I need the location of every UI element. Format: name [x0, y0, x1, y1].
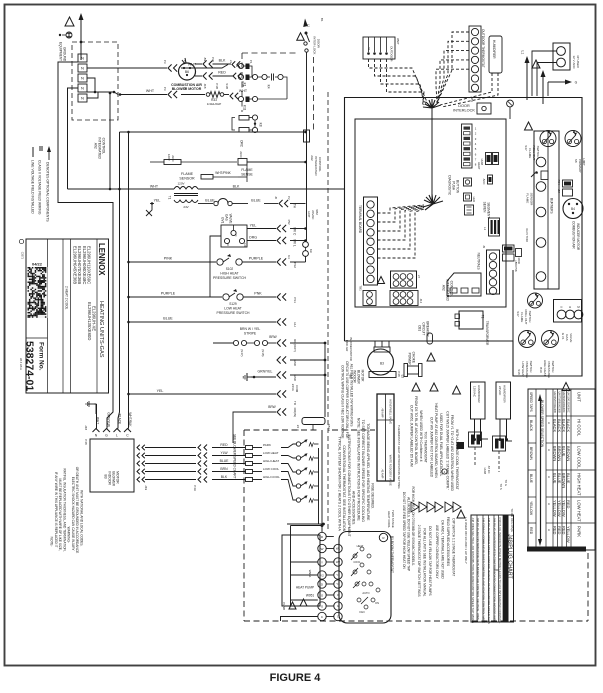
svg-text:FROM Y1 TO Y2 AT A92 CONTROL W: FROM Y1 TO Y2 AT A92 CONTROL WHEN USED	[450, 415, 454, 492]
svg-text:DO NOT USE RED SPEED TAP FOR H: DO NOT USE RED SPEED TAP FOR HIGH HEAT O…	[402, 492, 406, 570]
svg-text:YELLOW: YELLOW	[552, 500, 557, 517]
svg-text:FLAME: FLAME	[520, 312, 524, 322]
svg-text:BRN W / YEL: BRN W / YEL	[240, 327, 261, 331]
svg-text:BLACK: BLACK	[557, 419, 562, 432]
svg-text:J48 PLUG BLOWER SPEED CONTROL: J48 PLUG BLOWER SPEED CONTROL BOARD UNUS…	[487, 518, 491, 624]
svg-text:HEAT PUMP: HEAT PUMP	[296, 586, 314, 590]
svg-text:WARNING-: WARNING-	[67, 527, 71, 543]
svg-text:ELECTRIC SHOCK HAZARD CAN CAUS: ELECTRIC SHOCK HAZARD CAN CAUSE INJURY	[71, 477, 75, 552]
svg-text:WHT/PINK: WHT/PINK	[215, 171, 231, 175]
svg-text:BLUE: BLUE	[557, 473, 562, 484]
svg-text:RO(IN): RO(IN)	[293, 408, 297, 418]
svg-text:P2: P2	[287, 196, 291, 200]
svg-text:J1B: J1B	[203, 84, 207, 89]
svg-text:BLUE: BLUE	[163, 317, 173, 321]
svg-text:INDOOR: INDOOR	[108, 471, 112, 485]
svg-text:YEL: YEL	[250, 224, 257, 228]
svg-text:UNIT: UNIT	[396, 38, 400, 45]
svg-text:HEAT COOL: HEAT COOL	[387, 511, 391, 528]
svg-text:HUMIDIFIER: HUMIDIFIER	[492, 40, 496, 59]
svg-text:BLK: BLK	[233, 185, 240, 189]
svg-text:S18: S18	[517, 369, 521, 375]
svg-text:P3: P3	[163, 87, 167, 91]
svg-text:FIGURE 4: FIGURE 4	[270, 672, 322, 684]
svg-text:DIP SWITCH 1 2 STAGE THERMOSTA: DIP SWITCH 1 2 STAGE THERMOSTAT	[452, 518, 456, 576]
svg-text:RED: RED	[220, 443, 228, 447]
svg-text:/J58 P58: /J58 P58	[514, 260, 518, 271]
svg-text:RED: RED	[566, 500, 571, 509]
svg-text:BLACK: BLACK	[561, 419, 566, 432]
svg-text:BLACK: BLACK	[552, 419, 557, 432]
svg-text:A92: A92	[310, 155, 314, 161]
svg-text:12 V ACC: 12 V ACC	[572, 56, 576, 70]
svg-text:BLUE: BLUE	[251, 199, 261, 203]
svg-text:24VAC: 24VAC	[311, 210, 315, 220]
svg-text:USE COPPER CONDUCTORS ONLY: USE COPPER CONDUCTORS ONLY	[435, 525, 439, 580]
svg-text:DO NOT USE YELLOW TAP FOR HEAT: DO NOT USE YELLOW TAP FOR HEAT PUMPS	[428, 526, 432, 596]
svg-text:IG N TOR: IG N TOR	[525, 229, 529, 243]
svg-text:PUSH: PUSH	[452, 181, 456, 191]
svg-text:INTEGRATED: INTEGRATED	[98, 137, 102, 159]
svg-text:HLI: HLI	[293, 322, 297, 327]
svg-text:BRW: BRW	[268, 405, 275, 409]
svg-text:CONTROL: CONTROL	[318, 157, 322, 172]
svg-text:HI: HI	[226, 243, 230, 246]
svg-text:FIELD SUPPLIED ACCESSORIES: FIELD SUPPLIED ACCESSORIES	[446, 517, 450, 566]
svg-text:C2071: C2071	[20, 252, 23, 260]
svg-text:FOR HIGH HEAT ON 070X36B OR 09: FOR HIGH HEAT ON 070X36B OR 090X48C MODE…	[411, 486, 415, 566]
svg-text:HIGH HEAT: HIGH HEAT	[543, 360, 547, 376]
svg-text:GROUND: GROUND	[63, 47, 67, 62]
svg-text:AUTO: AUTO	[362, 591, 369, 595]
svg-text:N: N	[81, 66, 84, 71]
svg-text:H: H	[547, 529, 551, 531]
svg-text:.45 AMP: .45 AMP	[381, 469, 385, 479]
svg-text:P48 PLUG INDOOR BLOWER MOTOR L: P48 PLUG INDOOR BLOWER MOTOR LEADS TO A9…	[498, 518, 502, 624]
svg-text:LOW HEAT: LOW HEAT	[521, 362, 525, 378]
svg-text:EL296UH110XE60C: EL296UH110XE60C	[87, 246, 92, 284]
svg-text:HIGH HEAT: HIGH HEAT	[220, 272, 238, 276]
svg-text:H: H	[547, 449, 551, 451]
svg-text:STRIPE: STRIPE	[244, 332, 257, 336]
svg-text:CONVENTIONAL THERMOSTAT. SEE I: CONVENTIONAL THERMOSTAT. SEE INSTALLATIO…	[342, 445, 346, 531]
svg-text:538274-01: 538274-01	[24, 341, 36, 391]
svg-text:DENOTES OPTIONAL COMPONENTS: DENOTES OPTIONAL COMPONENTS	[46, 162, 50, 222]
svg-text:BROWN: BROWN	[566, 446, 571, 461]
svg-text:BREAKER: BREAKER	[426, 321, 430, 337]
svg-text:INSTRUCTIONS FOR CONNECTIONS T: INSTRUCTIONS FOR CONNECTIONS TO OTHER EQ…	[347, 434, 351, 537]
svg-text:L1: L1	[483, 227, 487, 231]
svg-text:NEUTRALS: NEUTRALS	[477, 253, 481, 270]
svg-text:WHT: WHT	[150, 185, 159, 189]
svg-text:BRW: BRW	[269, 335, 276, 339]
svg-text:K1: K1	[243, 83, 247, 87]
svg-text:HUMIDIFIER: HUMIDIFIER	[477, 385, 481, 403]
svg-text:T1: T1	[481, 315, 485, 319]
svg-text:HOT: HOT	[307, 211, 311, 218]
svg-text:P48: P48	[397, 371, 401, 377]
svg-text:HUMIDIFIER: HUMIDIFIER	[503, 385, 507, 403]
svg-text:T1: T1	[168, 196, 172, 200]
svg-text:SWITCH: SWITCH	[529, 361, 533, 373]
svg-text:TO G: TO G	[504, 480, 508, 486]
svg-text:DH AND L TERMINALS ARE NOT USE: DH AND L TERMINALS ARE NOT USED	[441, 520, 445, 579]
svg-text:3P USED: 3P USED	[576, 55, 580, 69]
svg-text:CUT W951 JUMPER LABELED D5 HUM: CUT W951 JUMPER LABELED D5 HUM	[410, 405, 414, 467]
svg-text:C: C	[234, 235, 238, 237]
svg-text:BLOWER: BLOWER	[112, 471, 116, 486]
svg-text:CONTROL WIRING CLASS II NEC LO: CONTROL WIRING CLASS II NEC LOW VOLTAGE	[341, 365, 345, 438]
svg-text:GRN/YLW: GRN/YLW	[107, 412, 111, 427]
svg-text:TRANSFORMER: TRANSFORMER	[485, 321, 489, 346]
svg-text:W951: W951	[308, 570, 312, 578]
svg-text:GV1: GV1	[221, 217, 225, 224]
svg-text:SEGMENT: SEGMENT	[487, 202, 491, 218]
svg-text:RED: RED	[529, 527, 533, 535]
svg-text:WHT: WHT	[96, 417, 100, 424]
svg-text:2 HEAT 2 COOL: 2 HEAT 2 COOL	[65, 286, 69, 310]
svg-text:LOW HEAT: LOW HEAT	[263, 451, 279, 455]
svg-text:SPEED TAPS: SPEED TAPS	[529, 392, 533, 412]
svg-text:PS2: PS2	[293, 262, 297, 268]
svg-text:SWITCH: SWITCH	[551, 361, 555, 373]
svg-text:WHT: WHT	[239, 89, 248, 93]
svg-text:YELLOW: YELLOW	[561, 500, 566, 517]
svg-text:HUM: HUM	[483, 468, 487, 475]
svg-text:BUTTON: BUTTON	[456, 180, 460, 194]
svg-text:G: G	[575, 81, 578, 85]
svg-text:SWITCH: SWITCH	[536, 146, 540, 158]
svg-text:HIGH COOL: HIGH COOL	[263, 475, 280, 479]
svg-text:PW: PW	[211, 57, 215, 62]
svg-text:USED FOR DUAL FUEL APPLICATION: USED FOR DUAL FUEL APPLICATIONS.	[439, 413, 443, 476]
svg-text:L 9 USED ON 3/4 AND 1 HP ONLY: L 9 USED ON 3/4 AND 1 HP ONLY	[464, 517, 468, 564]
svg-text:FOR ALL UNITS SEE INSTALLATION: FOR ALL UNITS SEE INSTALLATION MANUAL	[423, 528, 427, 596]
svg-text:ACC: ACC	[239, 151, 243, 158]
svg-text:DIAGNOSTIC: DIAGNOSTIC	[448, 175, 452, 196]
svg-text:CUT W9 JUMPER M D TO R LABELED: CUT W9 JUMPER M D TO R LABELED	[430, 417, 434, 478]
svg-text:SB1: SB1	[470, 97, 474, 103]
svg-text:INDUCER MOTOR: INDUCER MOTOR	[576, 223, 580, 251]
svg-text:YLW: YLW	[220, 451, 228, 455]
svg-text:L9: L9	[401, 375, 405, 379]
svg-text:CONTROL: CONTROL	[102, 138, 106, 155]
svg-text:BLK: BLK	[219, 59, 226, 63]
svg-text:B3: B3	[380, 362, 384, 366]
svg-text:CIRCUIT: CIRCUIT	[422, 322, 426, 335]
svg-text:K9: K9	[309, 249, 313, 253]
svg-text:W2: W2	[336, 560, 341, 564]
svg-text:P1: P1	[249, 60, 253, 64]
svg-text:PRIMARY: PRIMARY	[578, 159, 582, 173]
svg-text:BLUE: BLUE	[220, 459, 230, 463]
svg-text:SB2: SB2	[315, 209, 319, 215]
svg-text:VALVE: VALVE	[229, 214, 233, 224]
svg-text:A92: A92	[94, 143, 98, 149]
svg-text:S1B: S1B	[225, 83, 229, 89]
svg-text:CB1: CB1	[418, 325, 422, 331]
svg-text:NOTE: SEE INSTALLATION INSTRUC: NOTE: SEE INSTALLATION INSTRUCTIONS FOR …	[356, 418, 360, 522]
svg-text:YELLOW: YELLOW	[557, 500, 562, 517]
svg-text:TB1: TB1	[358, 285, 362, 291]
svg-text:BLUE: BLUE	[566, 473, 571, 484]
svg-text:NOTE-: NOTE-	[50, 537, 54, 547]
svg-text:OUTDOOR: OUTDOOR	[389, 46, 393, 62]
svg-text:ACC: ACC	[171, 155, 175, 162]
svg-text:LED: LED	[472, 197, 476, 202]
svg-text:C: C	[337, 615, 339, 619]
svg-text:MOTOR: MOTOR	[116, 471, 120, 484]
svg-text:GAS: GAS	[225, 214, 229, 221]
svg-text:B3: B3	[104, 474, 108, 478]
svg-text:COMBUSTION AIR: COMBUSTION AIR	[171, 83, 202, 87]
svg-text:FROM D5 TO RL AT A92 CONTROL B: FROM D5 TO RL AT A92 CONTROL BOARD,	[414, 396, 418, 465]
svg-text:BLK: BLK	[221, 475, 228, 479]
svg-text:BLACK: BLACK	[566, 419, 571, 432]
svg-text:EL296UH135XE60D: EL296UH135XE60D	[87, 302, 92, 340]
svg-text:ACC: ACC	[482, 179, 486, 185]
svg-text:BRN: BRN	[220, 467, 228, 471]
svg-text:G V1: G V1	[561, 333, 565, 340]
svg-text:HI COOL: HI COOL	[577, 419, 582, 437]
svg-text:UNIT: UNIT	[577, 392, 582, 402]
svg-text:Y: Y	[321, 560, 323, 564]
svg-text:J48 WIRE NEUTRAL AIR DISTRIBUT: J48 WIRE NEUTRAL AIR DISTRIBUTION BLOWER…	[471, 518, 475, 624]
svg-text:MV C: MV C	[293, 227, 297, 236]
svg-text:PL/98: PL/98	[282, 602, 286, 610]
svg-text:GRN/YEL: GRN/YEL	[258, 370, 273, 374]
svg-text:TH: TH	[293, 204, 297, 209]
svg-text:24VAC: 24VAC	[498, 386, 502, 396]
svg-text:WHEN USED WITH Confidence 4: WHEN USED WITH Confidence 4	[419, 410, 423, 461]
svg-text:PINK GR: PINK GR	[345, 340, 349, 352]
svg-text:INTEGRATED: INTEGRATED	[314, 156, 318, 176]
svg-text:C534: C534	[327, 424, 331, 432]
svg-text:1/4&1/2HP: 1/4&1/2HP	[207, 102, 222, 106]
svg-text:B4: B4	[571, 207, 575, 211]
svg-text:Y2: Y2	[320, 573, 324, 577]
svg-text:INTER LOCK: INTER LOCK	[312, 36, 316, 54]
svg-text:'HEAT PUMP' AT A92 CONTROL BOA: 'HEAT PUMP' AT A92 CONTROL BOARD, WHEN	[434, 403, 438, 479]
svg-text:S102: S102	[226, 267, 234, 271]
svg-text:ROLL OUT: ROLL OUT	[524, 310, 528, 325]
svg-text:J48 CONN-C COMB AIR BLOWER CON: J48 CONN-C COMB AIR BLOWER CONTROLS AND …	[482, 518, 486, 624]
svg-text:ALL MODELS. DO NOT USE YELLOW: ALL MODELS. DO NOT USE YELLOW SPEED TAP	[407, 497, 411, 571]
svg-text:S8: S8	[574, 159, 578, 163]
svg-text:24V: 24V	[183, 205, 188, 209]
svg-text:SEE BLOWER SPEED CHART: SEE BLOWER SPEED CHART	[233, 434, 237, 479]
svg-text:B10: B10	[539, 367, 543, 373]
svg-text:OUTDOOR THERMOSTAT: OUTDOOR THERMOSTAT	[481, 29, 485, 68]
svg-text:K4: K4	[267, 85, 271, 89]
svg-text:IF ANY WIRE IN THIS APPLIANCE: IF ANY WIRE IN THIS APPLIANCE IS REPLACE…	[54, 472, 58, 548]
svg-text:PINK: PINK	[164, 257, 173, 261]
svg-text:GND: GND	[293, 359, 297, 367]
svg-text:PNK: PNK	[254, 292, 262, 296]
svg-text:S47: S47	[524, 145, 528, 151]
svg-text:PRESSURE SWITCH: PRESSURE SWITCH	[217, 311, 251, 315]
svg-text:YELLOW: YELLOW	[529, 501, 533, 516]
svg-text:BROWN: BROWN	[561, 473, 566, 488]
svg-text:G: G	[105, 434, 108, 438]
svg-text:Y1: Y1	[367, 47, 371, 51]
svg-text:PRESSURE SWITCH: PRESSURE SWITCH	[213, 276, 247, 280]
svg-text:BURNERS: BURNERS	[549, 198, 553, 214]
svg-text:H: H	[547, 503, 551, 505]
svg-text:CLASS II VOLTAGE FIELD WIRING: CLASS II VOLTAGE FIELD WIRING	[38, 160, 42, 215]
svg-text:P84: P84	[557, 180, 561, 185]
svg-text:PS1: PS1	[293, 297, 297, 303]
svg-text:RISE DESIRED.: RISE DESIRED.	[371, 483, 375, 509]
svg-text:W1: W1	[336, 547, 341, 551]
svg-text:RATING, INSULATION THICKNESS,: RATING, INSULATION THICKNESS, AND TERMIN…	[62, 468, 66, 551]
svg-text:HIGH HEAT: HIGH HEAT	[263, 459, 279, 463]
svg-text:EL296UH090XE48C: EL296UH090XE48C	[82, 246, 87, 284]
svg-text:P1B: P1B	[215, 83, 219, 89]
svg-text:WITH NATIONAL AND LOCAL CODES.: WITH NATIONAL AND LOCAL CODES.	[79, 490, 83, 546]
svg-text:HEAT: HEAT	[357, 544, 364, 548]
svg-text:H: H	[547, 422, 551, 424]
svg-text:W951: W951	[306, 594, 315, 598]
svg-text:TO N: TO N	[499, 484, 503, 490]
svg-text:2 STAGE THERMOSTAT DIP SWITCH: 2 STAGE THERMOSTAT DIP SWITCH SETTINGS	[417, 525, 421, 597]
svg-text:PURPLE: PURPLE	[249, 257, 264, 261]
svg-text:DOOR: DOOR	[458, 104, 470, 108]
svg-text:120V: 120V	[177, 182, 184, 186]
svg-text:G: G	[337, 604, 339, 608]
svg-text:BLOWER: BLOWER	[357, 370, 361, 385]
svg-text:24VA: 24VA	[291, 384, 295, 391]
svg-text:J48/PLUG CHART: J48/PLUG CHART	[507, 534, 513, 580]
svg-text:FLAME: FLAME	[525, 193, 529, 203]
svg-text:A92: A92	[442, 285, 446, 291]
svg-text:PARK: PARK	[577, 526, 582, 537]
svg-text:TO SET CORRECT BLOWER SPEED FO: TO SET CORRECT BLOWER SPEED FOR SPECIFIC…	[361, 420, 365, 523]
svg-text:INTEGRATED: INTEGRATED	[446, 279, 450, 301]
svg-text:J12: J12	[419, 299, 423, 304]
svg-text:SENSOR: SENSOR	[529, 193, 533, 207]
svg-text:BROWN: BROWN	[552, 446, 557, 461]
svg-text:UH110/135XE60C: UH110/135XE60C	[566, 392, 570, 413]
svg-text:AND ACCESSORIES.: AND ACCESSORIES.	[352, 491, 356, 525]
svg-text:MV L: MV L	[293, 239, 297, 247]
svg-text:W: W	[321, 547, 324, 551]
svg-text:CUT W915 JUMPER LABELED '2 STA: CUT W915 JUMPER LABELED '2 STAGE COMPR.'	[446, 411, 450, 490]
svg-text:WHITE RODGERS VALVE: WHITE RODGERS VALVE	[389, 455, 393, 486]
svg-text:UH090/110XE48C: UH090/110XE48C	[562, 392, 566, 413]
svg-text:UH070/090XE36B: UH070/090XE36B	[557, 392, 561, 413]
svg-text:LOW HEAT: LOW HEAT	[577, 500, 582, 522]
svg-text:N: N	[81, 76, 84, 81]
svg-text:J48: J48	[84, 425, 88, 430]
svg-text:P3: P3	[163, 60, 167, 64]
svg-text:LB # US A: LB # US A	[19, 358, 23, 370]
svg-text:BLUE: BLUE	[552, 473, 557, 484]
svg-text:ON: ON	[375, 601, 379, 605]
svg-text:J49: J49	[144, 485, 148, 490]
svg-text:J1: J1	[229, 60, 233, 64]
svg-text:CIRCUITS USE COPPER CONDUCTORS: CIRCUITS USE COPPER CONDUCTORS ONLY FOR	[345, 361, 349, 439]
svg-text:BLACK: BLACK	[529, 420, 533, 432]
svg-text:ALL FIELD INSTALLED 24V WIRING: ALL FIELD INSTALLED 24V WIRING RUNS	[350, 364, 354, 427]
svg-text:BLOWER MOTOR: BLOWER MOTOR	[172, 87, 202, 91]
svg-text:B1: B1	[320, 18, 324, 22]
svg-text:P48: P48	[84, 439, 88, 445]
svg-text:TERMINAL BOARD: TERMINAL BOARD	[358, 205, 362, 234]
svg-text:P52: P52	[287, 220, 291, 225]
svg-text:K8: K8	[259, 123, 263, 127]
svg-text:.4B AMP: .4B AMP	[381, 408, 385, 418]
svg-text:L1: L1	[306, 24, 310, 28]
svg-text:EL296UH045XE36B: EL296UH045XE36B	[73, 246, 78, 284]
svg-text:FLAME: FLAME	[181, 172, 194, 176]
svg-text:K11: K11	[243, 105, 247, 111]
svg-text:J48 PLUG A92 DISTRIBUTION OF B: J48 PLUG A92 DISTRIBUTION OF BURNERS AIR…	[476, 518, 480, 621]
svg-text:ROLL OUT: ROLL OUT	[532, 146, 536, 161]
svg-text:FLAME: FLAME	[528, 148, 532, 158]
svg-text:J7: J7	[417, 275, 421, 279]
svg-text:JW: JW	[203, 57, 207, 61]
svg-text:LENNOX: LENNOX	[97, 243, 106, 276]
svg-text:OR DEATH UNIT MUST BE GROUNDED: OR DEATH UNIT MUST BE GROUNDED IN ACCORD…	[75, 467, 79, 553]
svg-text:L1: L1	[521, 50, 525, 54]
svg-text:EL296UH070XE36B: EL296UH070XE36B	[77, 246, 82, 284]
svg-text:HEATING UNITS-GAS: HEATING UNITS-GAS	[98, 301, 104, 358]
svg-text:BROWN: BROWN	[529, 447, 533, 461]
svg-text:UH045/070XE36B: UH045/070XE36B	[553, 392, 557, 413]
svg-text:7000 THERMOSTAT: 7000 THERMOSTAT	[423, 431, 427, 462]
svg-text:N: N	[81, 56, 84, 61]
svg-text:EL296UH-XE: EL296UH-XE	[92, 306, 97, 331]
svg-text:PURPLE: PURPLE	[161, 292, 176, 296]
svg-text:C: C	[560, 305, 562, 309]
svg-text:COM: COM	[295, 385, 299, 393]
svg-text:PARK: PARK	[263, 443, 271, 447]
svg-text:RED: RED	[561, 526, 566, 535]
svg-text:SEVEN: SEVEN	[483, 202, 487, 214]
svg-text:AT FC: AT FC	[487, 466, 491, 474]
svg-text:TWO STAGE: TWO STAGE	[391, 510, 395, 528]
svg-text:WHT/BLK: WHT/BLK	[128, 412, 132, 427]
svg-text:Form No.: Form No.	[38, 342, 45, 371]
svg-text:TONNAGE BEING APPLIED, AND HEA: TONNAGE BEING APPLIED, AND HEATING TEMPE…	[366, 423, 370, 521]
svg-text:B6: B6	[185, 70, 189, 74]
svg-text:YEL: YEL	[157, 389, 164, 393]
svg-text:HIGH HEAT: HIGH HEAT	[577, 473, 582, 496]
svg-text:RO(OUT): RO(OUT)	[293, 339, 297, 352]
svg-text:(S47): (S47)	[240, 349, 244, 356]
svg-text:POWER: POWER	[408, 353, 412, 366]
svg-text:S47: S47	[516, 311, 520, 317]
svg-text:K4: K4	[287, 255, 291, 259]
svg-text:BLUE: BLUE	[529, 474, 533, 484]
svg-text:PRESSURE: PRESSURE	[547, 362, 551, 379]
svg-text:GAS: GAS	[565, 334, 569, 340]
svg-text:MUST BE REPLACED WITH WIRE OF: MUST BE REPLACED WITH WIRE OF LIKE SIZE,	[58, 478, 62, 550]
svg-text:THERMOSTAT HEAT ANTICIPATION S: THERMOSTAT HEAT ANTICIPATION SETTING	[397, 425, 401, 489]
svg-text:RED: RED	[218, 71, 226, 75]
svg-text:P49: P49	[193, 485, 197, 491]
svg-text:TYPICAL SYSTEM SHOWN FOR 2 HEA: TYPICAL SYSTEM SHOWN FOR 2 HEATS 2 COOL …	[337, 436, 341, 531]
svg-text:BLOWER MOTOR: BLOWER MOTOR	[349, 338, 353, 361]
svg-text:PRESSURE: PRESSURE	[525, 362, 529, 379]
svg-text:L: L	[116, 434, 118, 438]
svg-text:YELLOW: YELLOW	[566, 526, 571, 543]
svg-text:COOL: COOL	[353, 560, 361, 564]
svg-text:J3: J3	[482, 245, 486, 248]
svg-text:YEL: YEL	[154, 199, 161, 203]
svg-text:J2: J2	[274, 196, 278, 199]
